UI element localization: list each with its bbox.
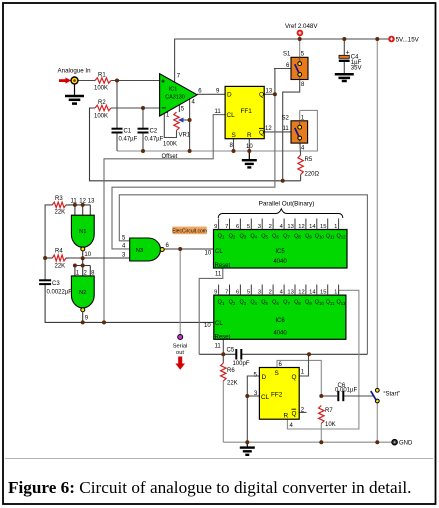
- wire FF1 R stub: [248, 139, 250, 151]
- svg-text:0.47µF: 0.47µF: [145, 137, 164, 143]
- svg-text:Q: Q: [259, 130, 264, 137]
- wire N1 output stub: [82, 251, 84, 258]
- svg-text:C2: C2: [150, 129, 158, 135]
- wire R7 bottom lead: [320, 424, 322, 443]
- wire N3 out to IC5 CL: [164, 248, 214, 250]
- svg-text:R3: R3: [55, 196, 63, 202]
- svg-text:220Ω: 220Ω: [305, 172, 320, 178]
- wire S2 pin1 stub: [299, 110, 301, 120]
- svg-text:Reset: Reset: [215, 334, 231, 340]
- svg-text:6: 6: [236, 224, 239, 230]
- svg-text:ElecCircuit.com: ElecCircuit.com: [172, 229, 207, 235]
- wire FF2 D CL drop: [247, 376, 259, 442]
- svg-text:100pF: 100pF: [233, 361, 250, 367]
- flip-flop FF2: [254, 362, 305, 429]
- svg-text:S1: S1: [283, 52, 291, 58]
- svg-text:15: 15: [320, 224, 326, 230]
- svg-text:D: D: [262, 374, 267, 381]
- svg-text:35V: 35V: [351, 66, 362, 72]
- svg-text:15: 15: [320, 289, 326, 295]
- svg-text:N3: N3: [136, 248, 143, 254]
- svg-text:Q8: Q8: [294, 234, 301, 240]
- svg-text:Q7: Q7: [283, 234, 290, 240]
- svg-text:D: D: [227, 92, 232, 99]
- svg-text:7: 7: [225, 224, 228, 230]
- svg-text:R6: R6: [227, 368, 235, 374]
- svg-text:Q6: Q6: [272, 234, 279, 240]
- wire FF2 Q up: [299, 354, 308, 376]
- svg-text:14: 14: [309, 224, 316, 230]
- switch Start: [371, 388, 400, 403]
- svg-text:5: 5: [247, 224, 250, 230]
- svg-text:+: +: [161, 79, 165, 86]
- svg-text:10: 10: [205, 251, 212, 257]
- svg-text:11: 11: [283, 126, 290, 132]
- svg-text:2: 2: [269, 224, 272, 230]
- NAND gate N1: [71, 215, 94, 258]
- svg-text:IC1: IC1: [169, 87, 177, 93]
- wire N2 output row: [45, 285, 214, 323]
- svg-text:R7: R7: [325, 408, 333, 414]
- svg-text:3: 3: [258, 224, 261, 230]
- svg-text:Q5: Q5: [261, 300, 268, 306]
- svg-text:10: 10: [246, 144, 253, 150]
- svg-text:0.47µF: 0.47µF: [119, 137, 138, 143]
- wire FF2 R to IC6 Q12: [287, 290, 359, 429]
- node 5V supply terminal: [388, 36, 419, 44]
- svg-text:Q: Q: [259, 92, 264, 99]
- wire S2 pin4 to R5: [299, 143, 302, 155]
- svg-text:5V...15V: 5V...15V: [396, 37, 420, 44]
- wire C5 reset line: [199, 353, 236, 355]
- wire FF2 Qbar stub: [299, 411, 306, 413]
- svg-text:FF2: FF2: [271, 392, 283, 399]
- svg-text:1: 1: [334, 289, 337, 295]
- svg-text:Q12: Q12: [336, 300, 346, 306]
- wire FF1 Qbar to S2: [264, 131, 291, 133]
- wire C4 leads: [343, 39, 345, 55]
- wire N2 input segment: [75, 258, 95, 276]
- svg-text:R5: R5: [305, 157, 313, 163]
- svg-text:7: 7: [225, 289, 228, 295]
- op-amp IC1 CA3130: [160, 74, 203, 119]
- resistor R2: [94, 100, 111, 120]
- svg-text:Q9: Q9: [305, 300, 312, 306]
- svg-text:Q12: Q12: [336, 234, 346, 240]
- svg-text:22K: 22K: [227, 381, 238, 387]
- svg-text:Q9: Q9: [305, 234, 312, 240]
- svg-text:10K: 10K: [325, 422, 336, 428]
- svg-text:out: out: [176, 350, 184, 356]
- capacitor C1: [112, 129, 138, 143]
- svg-text:“Start”: “Start”: [384, 392, 401, 398]
- svg-text:6: 6: [236, 289, 239, 295]
- potentiometer VR1: [163, 112, 191, 148]
- wire R3 left riser: [45, 205, 52, 258]
- svg-text:Q: Q: [292, 374, 297, 381]
- NAND gate N3: [122, 235, 170, 261]
- analog switch S2: [282, 116, 308, 152]
- NAND gate N2: [71, 276, 94, 322]
- node N1 pins 11 12 13: [71, 198, 96, 215]
- svg-text:13: 13: [287, 289, 293, 295]
- svg-text:S: S: [232, 132, 236, 139]
- wire R1 to +in: [111, 80, 160, 82]
- wire C2 leads: [142, 108, 144, 128]
- svg-text:Q1: Q1: [218, 234, 225, 240]
- svg-text:10: 10: [204, 323, 211, 329]
- resistor R5: [298, 155, 320, 178]
- svg-text:CL: CL: [215, 321, 223, 327]
- resistor R6: [221, 363, 238, 387]
- svg-text:VR1: VR1: [179, 133, 191, 139]
- svg-text:CL: CL: [227, 112, 236, 119]
- wire S1 pin6: [274, 68, 291, 70]
- wire gnd bottom rail: [223, 441, 394, 443]
- ground C4: [335, 74, 354, 81]
- svg-text:4040: 4040: [273, 259, 287, 265]
- svg-text:11: 11: [215, 109, 222, 115]
- svg-text:R2: R2: [98, 100, 106, 106]
- svg-text:S2: S2: [282, 116, 290, 122]
- svg-text:3: 3: [258, 289, 261, 295]
- svg-text:22K: 22K: [55, 264, 66, 270]
- wire C6 to switch: [321, 395, 337, 397]
- svg-text:100K: 100K: [163, 142, 177, 148]
- svg-text:IC5: IC5: [275, 249, 285, 255]
- svg-text:Q1: Q1: [218, 300, 225, 306]
- svg-text:IC6: IC6: [275, 318, 285, 324]
- svg-text:N1: N1: [79, 229, 86, 235]
- svg-text:CA3130: CA3130: [165, 95, 184, 101]
- svg-text:100K: 100K: [94, 86, 108, 92]
- wire 0V rail: [117, 110, 317, 151]
- wire N2 output stub: [82, 312, 84, 323]
- wire R2 to -in: [111, 107, 160, 109]
- label ElecCircuit.com badge: [172, 227, 207, 235]
- wire S1 pin8 to line A: [283, 80, 300, 181]
- svg-text:R: R: [247, 132, 252, 139]
- svg-text:9: 9: [214, 289, 217, 295]
- svg-text:Q6: Q6: [272, 300, 279, 306]
- node Vref terminal: [285, 23, 318, 36]
- svg-text:14: 14: [309, 289, 316, 295]
- svg-text:R: R: [284, 412, 289, 419]
- wire C3 leads: [44, 258, 46, 280]
- counter IC5 4040: [205, 219, 348, 278]
- brace parallel out: [218, 209, 343, 218]
- svg-text:Q3: Q3: [239, 300, 246, 306]
- wire IC1 pin1 to VR1 bottom: [164, 114, 176, 138]
- counter IC6 4040: [204, 285, 346, 350]
- svg-text:R4: R4: [55, 249, 63, 255]
- wire R6 leads: [222, 354, 224, 363]
- svg-text:Q: Q: [292, 410, 297, 417]
- wire IC1 out to FF1 D: [197, 93, 225, 95]
- svg-text:C3: C3: [52, 281, 60, 287]
- svg-text:Q4: Q4: [250, 234, 257, 240]
- node Serial out terminal: [173, 335, 188, 370]
- svg-text:Vref 2.048V: Vref 2.048V: [285, 23, 318, 30]
- svg-text:Q3: Q3: [239, 234, 246, 240]
- svg-text:Q11: Q11: [326, 234, 335, 240]
- wire IC5 reset loop: [199, 268, 223, 354]
- node GND terminal: [392, 440, 413, 447]
- ground FF2: [240, 442, 255, 455]
- resistor R7: [319, 406, 336, 429]
- svg-text:CL: CL: [215, 249, 223, 255]
- resistor R4: [45, 249, 69, 270]
- wire N1 output row: [69, 257, 130, 259]
- svg-text:Q4: Q4: [250, 300, 257, 306]
- svg-text:Parallel Out(Binary): Parallel Out(Binary): [259, 200, 315, 207]
- capacitor C5: [227, 348, 250, 367]
- svg-text:13: 13: [266, 89, 273, 95]
- svg-text:12: 12: [265, 126, 272, 132]
- svg-text:5: 5: [247, 289, 250, 295]
- svg-text:12: 12: [298, 224, 304, 230]
- svg-text:−: −: [161, 104, 166, 113]
- svg-text:Q11: Q11: [326, 300, 335, 306]
- wire serial out drop: [179, 249, 181, 335]
- svg-text:1: 1: [334, 224, 337, 230]
- wire line B FF1 CL net: [104, 115, 225, 323]
- svg-text:11: 11: [215, 271, 222, 277]
- svg-text:C5: C5: [227, 348, 235, 354]
- capacitor C3: [39, 280, 72, 295]
- svg-text:Q5: Q5: [261, 234, 268, 240]
- ground input: [65, 85, 84, 104]
- wire IC1 pin4: [189, 99, 191, 151]
- svg-text:4040: 4040: [273, 331, 287, 337]
- svg-text:R1: R1: [98, 73, 106, 79]
- svg-text:Analogue In: Analogue In: [58, 68, 92, 75]
- svg-text:9: 9: [214, 224, 217, 230]
- svg-text:22K: 22K: [55, 210, 66, 216]
- wire FF1 Q node: [264, 93, 275, 95]
- svg-text:Q8: Q8: [294, 300, 301, 306]
- svg-text:12: 12: [298, 289, 304, 295]
- wire IC6 reset stub: [222, 339, 224, 354]
- svg-text:Q7: Q7: [283, 300, 290, 306]
- svg-text:Q10: Q10: [315, 300, 325, 306]
- svg-text:FF1: FF1: [241, 108, 253, 115]
- svg-text:Q2: Q2: [229, 300, 236, 306]
- wire input to R1: [78, 80, 95, 82]
- svg-text:C1: C1: [124, 129, 132, 135]
- svg-text:0.001µF: 0.001µF: [335, 388, 357, 394]
- resistor R1: [94, 73, 111, 92]
- wire N1 input segment: [66, 204, 90, 206]
- svg-text:13: 13: [287, 224, 293, 230]
- svg-text:GND: GND: [399, 441, 413, 447]
- svg-text:2: 2: [269, 289, 272, 295]
- wire N3 output: [164, 248, 180, 250]
- svg-text:Q2: Q2: [229, 234, 236, 240]
- svg-text:Reset: Reset: [215, 263, 231, 269]
- wire C1 leads: [116, 81, 118, 129]
- svg-text:11: 11: [215, 344, 222, 350]
- analog switch S1: [283, 52, 308, 89]
- resistor R3: [52, 196, 66, 216]
- svg-text:Q10: Q10: [315, 234, 325, 240]
- svg-text:10: 10: [84, 252, 91, 258]
- svg-text:Figure 6: Circuit of analogue: Figure 6: Circuit of analogue to digital…: [8, 478, 411, 497]
- capacitor C6: [335, 383, 357, 401]
- wire VR1 wiper: [183, 119, 190, 121]
- capacitor C4 electrolytic: [339, 50, 362, 72]
- wire switch to gnd rail: [376, 403, 378, 442]
- wire box A N3 pin4 net: [112, 94, 275, 249]
- svg-text:N2: N2: [79, 290, 86, 296]
- wire line A integrator feedback: [90, 108, 301, 181]
- wire IC1 pin5: [178, 105, 180, 112]
- ground FF1 R: [242, 151, 257, 167]
- svg-text:Offset: Offset: [162, 154, 178, 160]
- svg-text:100K: 100K: [94, 114, 108, 120]
- svg-text:Serial: Serial: [173, 343, 188, 349]
- svg-text:0.0022µF: 0.0022µF: [47, 290, 73, 296]
- wire FF1 S stub: [233, 139, 235, 151]
- input terminal Analogue In: [58, 68, 92, 85]
- wire top rail Vref: [175, 39, 390, 82]
- capacitor C2: [138, 129, 164, 143]
- svg-text:S: S: [275, 370, 279, 377]
- flip-flop FF1: [215, 86, 273, 149]
- wire right supply loop: [376, 39, 378, 388]
- svg-text:CL: CL: [261, 394, 270, 401]
- wire FF2 S to R7: [277, 360, 321, 396]
- svg-text:13: 13: [88, 198, 95, 204]
- wire box B N3 pin5 reset net: [119, 195, 367, 354]
- wire Vref stub: [299, 36, 301, 57]
